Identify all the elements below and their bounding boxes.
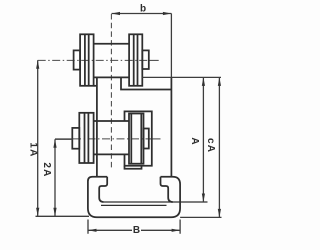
center line vertical (roller axis) <box>110 14 112 168</box>
arrow b right <box>163 12 172 15</box>
middle roller bracket <box>125 111 152 165</box>
middle roller left hub <box>72 128 79 149</box>
top roller spacer <box>94 44 130 78</box>
rail right lip <box>161 177 173 202</box>
svg-text:1A: 1A <box>27 142 38 157</box>
top-right extension (A/Ac) <box>142 76 221 78</box>
svg-text:2A: 2A <box>41 162 52 177</box>
body left edge <box>96 77 98 176</box>
body right edge <box>170 77 172 176</box>
svg-text:b: b <box>140 4 146 15</box>
arrow A2 bottom <box>53 208 56 217</box>
rail outer contour <box>88 177 180 218</box>
body small ledge left <box>94 85 97 87</box>
dim A1 line <box>37 60 39 216</box>
arrow A1 top <box>36 60 39 69</box>
top roller right wheel <box>129 34 142 86</box>
arrow A bottom <box>202 194 205 203</box>
bottom-left extension <box>36 215 90 217</box>
arrow A top <box>202 77 205 86</box>
middle roller left wheel <box>79 113 93 163</box>
arrow B left <box>88 229 97 232</box>
dim b line <box>112 13 172 15</box>
top roller right hub <box>142 50 149 69</box>
dim Ac line <box>218 77 220 217</box>
dim b right extension <box>170 14 172 78</box>
middle roller right wheel <box>129 114 144 164</box>
top roller left hub <box>74 50 81 69</box>
middle roller spacer <box>94 121 129 154</box>
dim B extensions <box>88 220 180 234</box>
rail left lip <box>99 177 107 202</box>
arrow Ac bottom <box>218 209 221 218</box>
arrow A1 bottom <box>36 208 39 217</box>
arrow b left <box>112 12 121 15</box>
label B with backing <box>132 225 141 235</box>
center line middle axle <box>55 138 73 140</box>
dim A line <box>202 77 204 202</box>
dim A2 line <box>55 139 73 216</box>
rail inner bottom second line <box>101 204 167 206</box>
axle stub right top <box>149 59 159 61</box>
svg-text:A: A <box>189 137 200 144</box>
rail inner bottom / A extension <box>104 201 208 203</box>
bracket tab <box>125 166 142 169</box>
svg-text:cA: cA <box>205 138 216 153</box>
arrow A2 top <box>53 139 56 148</box>
middle roller right hub <box>144 129 149 149</box>
svg-text:B: B <box>133 225 140 236</box>
top roller left wheel <box>80 34 94 86</box>
dim B line <box>88 229 180 231</box>
axle stub right middle <box>150 138 161 140</box>
arrow Ac top <box>218 77 221 86</box>
body step <box>121 77 171 89</box>
arrow B right <box>172 229 181 232</box>
center line top axle <box>38 59 149 61</box>
bottom-right extension (Ac) <box>180 216 221 218</box>
